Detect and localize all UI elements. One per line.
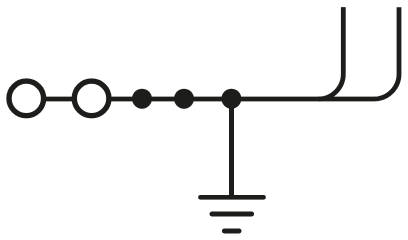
ground: middle bar: [212, 212, 252, 217]
wire: first plug branch curving up from main conductor: [318, 7, 343, 99]
wire: vertical drop from node dot 3 to ground: [229, 99, 234, 197]
terminal circle 1 (screw clamp): [9, 81, 44, 116]
terminal circle 2 (screw clamp): [74, 81, 109, 116]
ground: bottom bar: [224, 229, 239, 234]
node dot 2: [174, 89, 194, 109]
ground: top bar: [201, 195, 264, 200]
node dot 3 (junction to ground): [221, 89, 241, 109]
wire: main conductor from left terminal through nodes to right plug curve: [26, 7, 399, 99]
node dot 1: [132, 89, 152, 109]
